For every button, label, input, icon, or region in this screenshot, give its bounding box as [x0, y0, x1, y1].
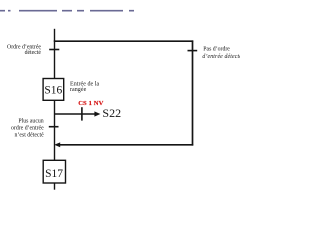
wire: branch to jump S22: [55, 113, 95, 115]
label: Pas d'ordre / d'entree detecte (right transition condition): [202, 47, 242, 60]
step S16: [43, 79, 64, 101]
wire: bottom return link: [59, 144, 193, 146]
transition tick T1 on left link: [49, 49, 59, 51]
svg-text:S22: S22: [102, 106, 121, 120]
arrowhead to S22: [94, 111, 100, 116]
svg-text:détecté: détecté: [25, 50, 42, 56]
step S17: [43, 160, 65, 183]
svg-text:S17: S17: [45, 168, 63, 180]
svg-text:Pas d’ordre: Pas d’ordre: [203, 47, 230, 53]
wire: left vertical link from S16 down to step S17: [54, 101, 56, 161]
label: Ordre d'entree detecte (transition condition T1): [7, 45, 41, 56]
wire: top horizontal link: [54, 40, 193, 42]
svg-text:S16: S16: [44, 85, 62, 97]
transition tick T2 on left link: [49, 126, 59, 128]
label: Plus aucun ordre d'entree n'est detecte (transition condition T2): [11, 119, 44, 139]
label: Entree de la rangee (step S16 comment): [70, 82, 100, 93]
svg-text:CS 1 NV: CS 1 NV: [78, 100, 103, 107]
wire: left vertical link from T1 to step S16: [54, 41, 56, 79]
arrowhead into left link: [54, 142, 60, 147]
page-break dashed line: [0, 10, 134, 12]
svg-text:n’est détecté: n’est détecté: [15, 132, 45, 138]
svg-text:d’entrée détecté: d’entrée détecté: [202, 54, 240, 60]
svg-text:ordre d’entrée: ordre d’entrée: [11, 125, 44, 131]
svg-text:Plus aucun: Plus aucun: [18, 119, 43, 125]
svg-text:rangée: rangée: [70, 87, 87, 93]
transition tick on right link: [188, 50, 198, 52]
transition tick on branch: [81, 107, 83, 120]
wire: link from previous page into step S16: [54, 29, 56, 41]
wire: link below step S17: [54, 183, 56, 190]
wire: right vertical link: [192, 40, 194, 145]
